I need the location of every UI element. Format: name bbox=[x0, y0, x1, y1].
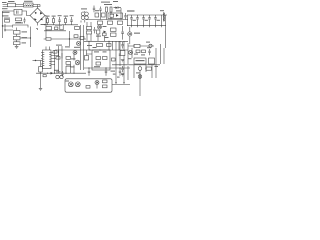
wire left drop col bbox=[40, 61, 42, 89]
label C14 bbox=[157, 20, 160, 21]
resistor R35 bbox=[96, 62, 101, 65]
resistor R13 bbox=[75, 27, 80, 30]
capacitor C12 bbox=[142, 15, 145, 22]
capacitor C3 bbox=[58, 17, 61, 25]
op-amp U1 TL494 bbox=[43, 50, 52, 69]
label ACL bbox=[2, 2, 7, 3]
node tick bbox=[36, 29, 38, 31]
label mid2 bbox=[65, 46, 70, 47]
resistor R5 bbox=[106, 7, 108, 12]
label C5 bbox=[22, 31, 28, 32]
resistor R29 bbox=[39, 67, 43, 73]
resistor R7 bbox=[98, 21, 103, 24]
diode D5 bbox=[116, 7, 118, 9]
label sb3 bbox=[121, 74, 124, 75]
wire left of T3 bbox=[87, 50, 93, 60]
label T3c bbox=[94, 66, 100, 67]
inductor L1 coil bbox=[25, 4, 33, 7]
label C4 bbox=[70, 15, 74, 16]
resistor R37 bbox=[136, 50, 140, 53]
transistor Q15 bbox=[60, 75, 63, 78]
wire row2 bus bbox=[44, 30, 66, 32]
node dot T3a bbox=[89, 49, 90, 50]
diode D4 of bridge bbox=[40, 18, 43, 20]
transistor Q7 leads bbox=[76, 61, 79, 63]
wire bridge right output bbox=[45, 16, 46, 40]
wire AC line N bbox=[3, 11, 31, 16]
resistor R11 bbox=[55, 27, 58, 30]
label tm5 bbox=[116, 10, 121, 11]
wire ic top feeds bbox=[46, 47, 50, 51]
wire vert feeds bbox=[59, 46, 63, 59]
label rc5 bbox=[128, 58, 132, 59]
capacitor C10 bbox=[130, 15, 133, 22]
node dot rc2 bbox=[133, 45, 134, 46]
resistor R9 bbox=[118, 21, 123, 24]
transformer T2 winding bbox=[81, 11, 85, 23]
box Q drive right bbox=[102, 13, 106, 17]
resistor R8 bbox=[108, 21, 113, 24]
resistor R6b bbox=[110, 14, 114, 17]
label R4 bbox=[64, 16, 69, 17]
wire comb verticals bbox=[55, 50, 75, 73]
label D7 bbox=[56, 71, 61, 72]
transformer T2 bbox=[81, 12, 85, 16]
label rc3 bbox=[141, 54, 145, 55]
node dot J1 bbox=[2, 25, 3, 26]
wire right low bus bbox=[112, 64, 160, 66]
label C12 bbox=[145, 20, 148, 21]
diode D6 bbox=[116, 14, 119, 17]
label mid1 bbox=[56, 45, 62, 46]
node dot J13 bbox=[105, 67, 106, 68]
label L1 bbox=[24, 0, 33, 3]
node dot J12 bbox=[88, 67, 89, 68]
label NTC bbox=[4, 18, 10, 19]
label top mid3 bbox=[113, 1, 118, 2]
capacitor C20 bbox=[148, 49, 150, 55]
label R1b bbox=[22, 42, 27, 43]
diode D1 of bridge bbox=[35, 12, 37, 15]
transistor Q2 leads bbox=[77, 42, 80, 44]
resistor R34 bbox=[103, 57, 108, 60]
label C3 bbox=[58, 15, 62, 16]
wire drops mid-right bbox=[89, 41, 119, 50]
wire caps drop bbox=[16, 28, 18, 47]
op-amp U2 TL431 bbox=[134, 58, 146, 64]
label T3b bbox=[103, 51, 107, 52]
transistor Q14 bbox=[56, 75, 59, 78]
label ACN bbox=[2, 8, 8, 9]
varistor Z1 bbox=[16, 18, 22, 21]
resistor R3 bbox=[53, 19, 55, 23]
label R19c bbox=[105, 37, 109, 38]
wire right edge rail bbox=[165, 15, 167, 48]
transistor Q3 bbox=[98, 25, 102, 29]
resistor R24 bbox=[53, 51, 57, 54]
wire cap drops bbox=[132, 15, 162, 26]
resistor R39 bbox=[146, 67, 152, 70]
switch SW1 bracket bbox=[13, 25, 29, 28]
transistor Q13 bbox=[138, 75, 142, 79]
diode D3 of bridge bbox=[34, 18, 37, 20]
label U2 bbox=[136, 60, 145, 61]
wire top mid bus bbox=[86, 19, 128, 21]
label q7a bbox=[71, 58, 76, 59]
label tm4 bbox=[95, 10, 99, 11]
resistor R15 bbox=[74, 35, 78, 38]
wire left input down bbox=[3, 11, 6, 38]
wire output lower bus bbox=[127, 25, 166, 27]
resistor R33 bbox=[96, 57, 101, 60]
ground GND2 bbox=[39, 88, 42, 90]
label C10 bbox=[133, 20, 136, 21]
diode D2 of bridge bbox=[40, 12, 42, 15]
capacitor C14 bbox=[154, 15, 157, 22]
label q12 bbox=[136, 72, 140, 73]
wire bulk right riser bbox=[20, 27, 31, 48]
capacitor C6 bulk bbox=[14, 36, 21, 40]
wire riser B bbox=[90, 22, 92, 41]
resistor R17 bbox=[87, 27, 92, 30]
wire row verticals bbox=[48, 17, 66, 25]
label mid4 bbox=[93, 47, 97, 48]
wire Q risers bbox=[81, 25, 84, 70]
diode D5 bar bbox=[114, 6, 122, 9]
capacitor C13 bbox=[148, 15, 151, 22]
transistor Q11 leads bbox=[129, 51, 132, 53]
box Q drive left bbox=[95, 13, 99, 17]
resistor R30 bbox=[86, 86, 90, 89]
resistor R32 bbox=[103, 85, 108, 88]
capacitor C1 inner bbox=[17, 11, 19, 14]
label ob1 bbox=[146, 42, 150, 43]
node dot J9 bbox=[54, 73, 55, 74]
capacitor C5 bulk bbox=[14, 31, 21, 35]
inductor L1 filter bbox=[24, 3, 34, 7]
label BR1 bbox=[41, 24, 46, 25]
label R2 bbox=[46, 16, 50, 17]
capacitor C21 bbox=[121, 42, 123, 49]
resistor R22b bbox=[107, 44, 112, 47]
label top mid1 bbox=[101, 1, 110, 4]
capacitor C15b bbox=[93, 27, 95, 33]
wire R23 drop bbox=[160, 44, 162, 64]
capacitor C7b bbox=[93, 6, 95, 13]
resistor R31 bbox=[103, 80, 108, 83]
label q7b bbox=[71, 66, 75, 67]
resistor R26 bbox=[66, 57, 71, 60]
wire top mid drops bbox=[101, 8, 122, 20]
thermistor NTCR1 bbox=[5, 20, 10, 23]
transistor Q8 bbox=[68, 82, 73, 87]
wire output top bus bbox=[127, 15, 167, 26]
label R12 bbox=[55, 25, 62, 26]
label out hdr bbox=[127, 10, 135, 11]
wire riser A bbox=[86, 22, 88, 41]
wire Q4 stub bbox=[129, 27, 131, 44]
label C1a bbox=[2, 12, 10, 13]
resistor R18 bbox=[87, 31, 92, 34]
label rc1 bbox=[134, 54, 138, 55]
capacitor C1 X-cap bbox=[14, 9, 22, 15]
diode D7 bbox=[51, 72, 54, 75]
transistor Q10 leads bbox=[96, 82, 98, 89]
transistor Q8 leads bbox=[70, 83, 73, 85]
wire mid bus bbox=[44, 38, 86, 40]
resistor R12 bbox=[60, 25, 63, 30]
resistor R38 bbox=[142, 50, 146, 53]
wire low mid bus bbox=[84, 67, 130, 69]
resistor R20 bbox=[111, 28, 117, 31]
label icb bbox=[54, 70, 59, 71]
resistor R19b bbox=[103, 33, 107, 36]
wire far right drops bbox=[134, 65, 152, 96]
transistor Q9 leads bbox=[77, 83, 80, 85]
transistor Q13 leads bbox=[139, 76, 141, 78]
pin tick A bbox=[115, 82, 125, 84]
wire T3 top bus bbox=[55, 49, 128, 51]
node dot T3b bbox=[99, 49, 100, 50]
U1 pin hatch bbox=[43, 53, 52, 66]
transistor Q10 bbox=[95, 81, 99, 85]
node dot J5 bbox=[58, 51, 59, 52]
wire AC line L bbox=[3, 5, 41, 7]
ground GND1 bbox=[15, 46, 19, 48]
capacitor C19 bbox=[119, 68, 121, 76]
capacitor C17 bbox=[88, 68, 90, 76]
resistor R1b bleeder bbox=[14, 42, 21, 45]
label Q2 bbox=[74, 47, 80, 48]
resistor R41 bbox=[112, 58, 116, 61]
label L2 bbox=[160, 10, 164, 11]
label T3a bbox=[94, 51, 99, 52]
transistor Q4 bbox=[128, 32, 132, 36]
resistor R14 bbox=[46, 38, 51, 40]
label mid3 bbox=[87, 45, 92, 46]
node dot J2b bbox=[30, 37, 31, 38]
label Z1 bbox=[16, 22, 21, 23]
node dot rc bbox=[139, 64, 140, 65]
label C1b bbox=[2, 15, 9, 16]
ground GND4 bbox=[121, 74, 124, 76]
node dot J11 bbox=[73, 73, 74, 74]
label R27 bbox=[66, 66, 71, 67]
label C6 bbox=[22, 37, 28, 38]
diode D8 bbox=[104, 31, 107, 34]
wire choke to bridge top bbox=[37, 5, 40, 9]
resistor R10 bbox=[46, 27, 52, 30]
resistor R6 bbox=[110, 7, 112, 12]
resistor R19 bbox=[97, 30, 100, 34]
label Q4 bbox=[134, 33, 140, 34]
resistor R22 bbox=[97, 44, 103, 47]
capacitor C23 bbox=[119, 54, 121, 55]
transistor Q3 leads bbox=[98, 26, 100, 28]
wire startup row bus bbox=[44, 24, 78, 26]
capacitor C2 y-cap bbox=[23, 18, 25, 24]
node dot J8 bbox=[108, 41, 109, 42]
label F1 value bbox=[8, 1, 15, 2]
op-amp U3 bbox=[149, 58, 155, 64]
resistor R23 bbox=[134, 44, 140, 47]
wire bottom drive bus bbox=[36, 72, 86, 74]
label sb2 bbox=[117, 77, 120, 78]
label SW115V bbox=[15, 22, 23, 23]
wire lower right link bbox=[128, 45, 154, 47]
capacitor C8 bbox=[124, 13, 126, 20]
node dot J14 bbox=[119, 67, 120, 68]
wire crossing vertical bbox=[69, 31, 71, 46]
resistor R21 bbox=[111, 33, 117, 36]
label rc2 bbox=[155, 66, 159, 67]
transistor Q5 bbox=[149, 44, 152, 47]
ground GND3 bbox=[121, 60, 125, 62]
label R3 bbox=[52, 16, 56, 17]
wire right cluster rails bbox=[128, 48, 164, 78]
resistor R4 bbox=[65, 19, 67, 23]
resistor R25 bbox=[56, 57, 60, 60]
box standby outline bbox=[65, 79, 112, 92]
transistor Q2 bbox=[76, 41, 80, 45]
capacitor C22 bbox=[121, 66, 123, 72]
label sb1 bbox=[113, 74, 116, 75]
node dot J4 bbox=[35, 60, 36, 61]
inductor L2 bbox=[164, 13, 165, 22]
resistor R36 bbox=[85, 56, 89, 61]
resistor R16 bbox=[80, 37, 84, 40]
capacitor C7 bbox=[99, 7, 101, 13]
transistor Q12 bbox=[138, 67, 142, 71]
transformer T2 secondary bbox=[81, 16, 85, 20]
resistor R27 bbox=[66, 62, 71, 65]
wire right verticals low bbox=[116, 66, 128, 84]
resistor R2 bbox=[47, 19, 49, 23]
transformer T2 core bbox=[85, 12, 89, 16]
wire out stub ticks bbox=[132, 26, 162, 28]
label R19 bbox=[96, 36, 101, 37]
fuse F1 bbox=[8, 3, 16, 7]
capacitor C11 bbox=[136, 15, 139, 22]
label Q3 bbox=[103, 26, 107, 27]
node dot J2 bbox=[4, 29, 5, 30]
transistor Q9 bbox=[75, 82, 80, 87]
transistor Q7 bbox=[75, 60, 80, 65]
label T2 bbox=[81, 8, 87, 9]
wire doubler link bbox=[3, 26, 14, 30]
transistor Q4 leads bbox=[129, 33, 132, 35]
bridge rectifier BR1 bbox=[30, 8, 45, 23]
transformer T2 secondary2 bbox=[85, 16, 89, 20]
U1 pins right bbox=[51, 53, 59, 65]
wire TL494 left feed bbox=[33, 60, 43, 62]
transformer T3 outline bbox=[92, 50, 110, 70]
label standby bbox=[65, 81, 69, 82]
U1 pins left bbox=[41, 53, 43, 67]
label rc4 bbox=[147, 47, 151, 48]
wire mid-right bus bbox=[84, 40, 128, 42]
wire bridge bottom bbox=[37, 23, 39, 26]
wire low right link bbox=[112, 84, 130, 86]
capacitor C15 bbox=[121, 26, 124, 40]
wire long verticals center bbox=[113, 41, 129, 66]
capacitor C16 bbox=[61, 71, 63, 77]
resistor R40 bbox=[120, 51, 125, 56]
node dot J7 bbox=[88, 41, 89, 42]
node dot J6 bbox=[145, 68, 146, 69]
transistor Q6 bbox=[73, 51, 77, 55]
transistor Q11 bbox=[128, 50, 132, 54]
node dot J10 bbox=[65, 73, 66, 74]
label C18 bbox=[111, 71, 116, 72]
capacitor C18 bbox=[105, 68, 107, 76]
wire q3 drop bbox=[98, 34, 105, 41]
resistor R28 bbox=[43, 75, 46, 77]
capacitor C4 bbox=[70, 17, 73, 25]
box snubber outline bbox=[108, 13, 123, 19]
node dot J3 bbox=[69, 38, 70, 39]
transistor Q6 leads bbox=[74, 52, 76, 54]
label top mid2 bbox=[104, 4, 112, 5]
